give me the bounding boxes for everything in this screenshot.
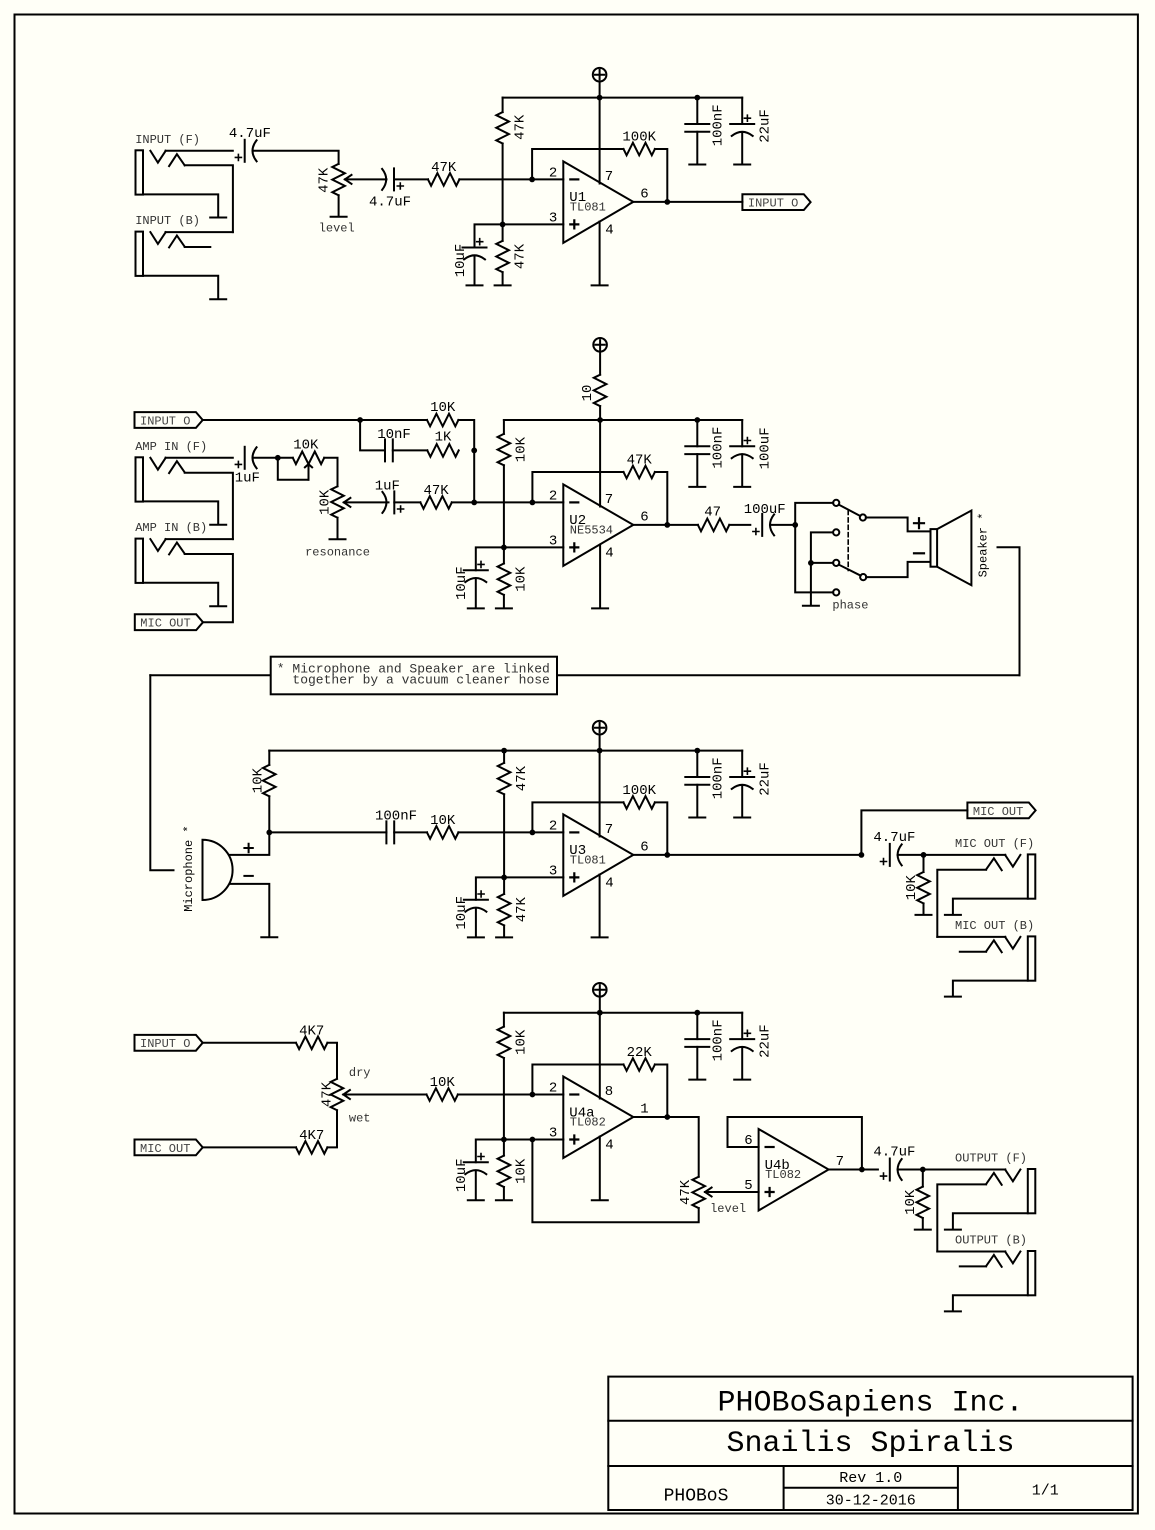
- switch SW1 pole M1: [860, 514, 866, 520]
- wire to R6: [360, 419, 427, 421]
- capacitor C5 22uF: [730, 115, 754, 136]
- wire U4b feedback loop: [728, 1117, 862, 1170]
- capacitor C7 1uF: [235, 447, 260, 487]
- wire U3 output run: [633, 854, 861, 856]
- svg-text:47K: 47K: [431, 160, 457, 176]
- wire J2 ring stub: [185, 246, 211, 248]
- ground C4: [689, 164, 705, 166]
- wire rail to C16: [696, 751, 698, 777]
- ground R30: [915, 1229, 931, 1231]
- capacitor C17 22uF: [730, 768, 754, 789]
- wire feedback U2: [532, 472, 623, 502]
- wire R22 to mix pot top: [327, 1043, 337, 1079]
- svg-text:INPUT (F): INPUT (F): [135, 133, 200, 147]
- wire level pot to vref: [532, 1140, 698, 1223]
- wire down to pin2 row: [473, 450, 475, 502]
- net tag INPUT O output: [742, 194, 810, 210]
- svg-text:10K: 10K: [430, 1075, 456, 1091]
- wire feedback U4a: [532, 1065, 623, 1095]
- wire R12 to pin3 node: [503, 465, 505, 547]
- wire R18 to pin3 node: [503, 794, 505, 877]
- svg-text:2: 2: [549, 1081, 557, 1097]
- svg-text:2: 2: [549, 165, 557, 181]
- capacitor C11 100nF: [685, 427, 726, 469]
- wire positive rail section2: [504, 419, 742, 421]
- resistor R14 47K feedback: [624, 453, 655, 479]
- wire J1 sleeve to ground: [143, 194, 218, 216]
- wire feedback U3: [532, 802, 623, 832]
- title block frame: [608, 1377, 1132, 1510]
- ground C18: [468, 1199, 484, 1201]
- power flag +V section3: [593, 721, 607, 751]
- net tag INPUT O input: [135, 412, 203, 428]
- jack J6 MIC OUT (B): [955, 919, 1035, 981]
- wire J6 tip: [937, 936, 1005, 938]
- wire R14 to output: [655, 472, 667, 525]
- junction U3 output: [664, 852, 670, 858]
- wire R25 to U4a pin2: [458, 1094, 563, 1096]
- ground C9: [468, 607, 484, 609]
- wiper of level pot: [345, 175, 387, 184]
- wire R27 to ground: [503, 1187, 505, 1199]
- capacitor C21 4.7uF: [873, 1145, 915, 1181]
- wire C16 to ground: [696, 785, 698, 817]
- wire R4 to ground: [502, 272, 504, 284]
- wire to J5 tip: [924, 854, 1006, 856]
- capacitor C15 4.7uF: [873, 830, 915, 866]
- jack J7 OUTPUT (F): [955, 1152, 1035, 1214]
- svg-text:10K: 10K: [293, 438, 319, 454]
- wire R11 to rail: [599, 406, 601, 420]
- svg-text:TL082: TL082: [570, 1116, 606, 1130]
- junction rail power section4: [597, 1010, 603, 1016]
- svg-text:4.7uF: 4.7uF: [229, 126, 271, 142]
- ground U3 pin4: [592, 936, 608, 938]
- svg-text:47K: 47K: [514, 897, 530, 923]
- label resonance: [305, 546, 370, 560]
- svg-text:100K: 100K: [622, 130, 656, 146]
- wire pin3 node to U2: [504, 546, 563, 548]
- wire pin4 to ground U2: [599, 545, 601, 608]
- title Snailis Spiralis: [726, 1427, 1014, 1461]
- svg-text:Rev 1.0: Rev 1.0: [839, 1470, 902, 1487]
- wire pin3 node to U1: [503, 223, 564, 225]
- wire to switch throw A: [795, 503, 833, 525]
- switch SW1 phase throw D: [833, 589, 839, 595]
- jack J2 INPUT (B): [135, 214, 200, 276]
- jack J3 AMP IN (F): [135, 440, 207, 502]
- junction pin3 bias node U2: [501, 545, 507, 551]
- svg-text:PHOBoSapiens Inc.: PHOBoSapiens Inc.: [717, 1387, 1023, 1421]
- svg-text:level: level: [710, 1202, 746, 1216]
- resistor R12 10K upper bias: [498, 434, 530, 465]
- wire level pot to ground: [338, 195, 340, 215]
- jack J8 OUTPUT (B): [955, 1234, 1035, 1296]
- net tag MIC OUT mixer: [135, 1140, 203, 1156]
- op-amp U4b TL082: [744, 1129, 844, 1211]
- label 100uF supply: [757, 427, 773, 469]
- svg-text:OUTPUT (F): OUTPUT (F): [955, 1152, 1027, 1166]
- wire J8 ring stub: [960, 1265, 986, 1267]
- svg-text:phase: phase: [832, 599, 868, 613]
- resistor R25 10K mix: [427, 1075, 458, 1101]
- wire J5 ring to J6 tip: [937, 870, 986, 937]
- wire pole M2 to speaker minus: [866, 562, 930, 577]
- wire J4 sleeve to ground: [143, 583, 218, 605]
- resistor R3 47K upper bias: [496, 112, 528, 143]
- note box microphone speaker linked: [271, 657, 557, 695]
- op-amp U3 TL081: [549, 814, 649, 896]
- wire J3 sleeve to ground: [143, 501, 218, 523]
- op-amp U4a TL082: [549, 1077, 649, 1159]
- svg-text:2: 2: [549, 818, 557, 834]
- label level U4b: [710, 1202, 746, 1216]
- wiper of 10K rheostat: [305, 464, 312, 480]
- junction rail power section1: [597, 95, 603, 101]
- svg-text:7: 7: [605, 492, 613, 508]
- power flag +V section4: [593, 983, 607, 1013]
- wire J8 tip: [937, 1251, 1005, 1253]
- junction pin2 feedback node: [529, 177, 535, 183]
- label Microphone: [182, 825, 196, 911]
- wire U4a output to level pot: [633, 1117, 698, 1177]
- wire to switch throw D: [795, 525, 833, 593]
- wire C1 to level pot: [253, 151, 339, 164]
- wire pin3 node to C9: [476, 547, 504, 570]
- capacitor C18 10uF: [454, 1154, 488, 1193]
- capacitor C16 100nF: [685, 757, 726, 799]
- net tag INPUT O mixer: [135, 1035, 203, 1051]
- wire C11 to ground: [696, 454, 698, 486]
- ground J2 sleeve: [210, 298, 226, 300]
- wire R30 to ground: [922, 1218, 924, 1229]
- label phase: [832, 599, 868, 613]
- svg-text:TL081: TL081: [570, 201, 606, 215]
- svg-text:6: 6: [640, 840, 648, 856]
- resistor R7 1K: [427, 429, 458, 456]
- ground R4: [495, 284, 511, 286]
- junction 1K node: [471, 448, 477, 454]
- resistor R23 4K7 wet: [296, 1128, 327, 1154]
- wire speaker to hose link: [998, 547, 1020, 675]
- svg-text:47K: 47K: [423, 483, 449, 499]
- svg-text:10K: 10K: [318, 489, 334, 515]
- power flag +V section2: [593, 338, 607, 375]
- capacitor C3 10uF: [453, 239, 487, 278]
- junction pin2 feedback node U4a: [530, 1092, 536, 1098]
- resistor R28 22K feedback: [624, 1045, 655, 1071]
- wire load node to R30: [922, 1170, 924, 1187]
- svg-text:AMP IN (B): AMP IN (B): [135, 521, 207, 535]
- svg-text:Snailis Spiralis: Snailis Spiralis: [726, 1427, 1014, 1461]
- svg-text:100nF: 100nF: [711, 757, 727, 799]
- svg-text:10nF: 10nF: [377, 427, 411, 443]
- wire pin8 supply U4a: [599, 1013, 601, 1099]
- svg-text:wet: wet: [349, 1111, 371, 1125]
- resistor R10 47K: [420, 483, 451, 509]
- wire rail to R12: [503, 420, 505, 434]
- wire rail to C20: [741, 1013, 743, 1039]
- capacitor C12 100uF: [730, 438, 754, 459]
- svg-text:10uF: 10uF: [453, 244, 469, 278]
- svg-text:AMP IN (F): AMP IN (F): [135, 440, 207, 454]
- wire rheostat loop: [278, 458, 309, 480]
- svg-text:10K: 10K: [514, 1158, 530, 1184]
- junction 47K node: [471, 500, 477, 506]
- ground R27: [496, 1199, 512, 1201]
- wire pin7 supply U1: [599, 98, 601, 184]
- svg-text:INPUT O: INPUT O: [140, 1037, 190, 1051]
- ground C19: [689, 1079, 705, 1081]
- wire throw B to ground node: [811, 532, 833, 563]
- ground resonance pot: [330, 538, 346, 540]
- op-amp U1 TL081: [549, 161, 649, 243]
- label 22uF: [757, 109, 773, 143]
- junction rail 47K section3: [501, 748, 507, 754]
- svg-text:5: 5: [744, 1178, 752, 1194]
- resistor R21 10K load: [904, 872, 930, 903]
- svg-text:6: 6: [640, 187, 648, 203]
- capacitor C14 10uF: [454, 891, 488, 930]
- label dry: [349, 1066, 371, 1080]
- junction rail power section2: [597, 417, 603, 423]
- ground C5: [734, 164, 750, 166]
- ground C3: [467, 284, 483, 286]
- junction U4a output: [664, 1114, 670, 1120]
- resistor R20 100K feedback: [622, 783, 656, 809]
- svg-text:INPUT O: INPUT O: [140, 414, 190, 428]
- ground J6 sleeve: [945, 996, 961, 998]
- ground R19: [496, 936, 512, 938]
- svg-text:100nF: 100nF: [711, 104, 727, 146]
- junction pin3 bias node: [500, 222, 506, 228]
- wire rail to C12: [741, 420, 743, 446]
- svg-text:1uF: 1uF: [235, 470, 260, 486]
- resistor R6 10K: [427, 400, 458, 426]
- ground U4a pin4: [592, 1199, 608, 1201]
- wire J5 sleeve to ground: [953, 899, 1028, 914]
- resistor R22 4K7 dry: [296, 1023, 327, 1049]
- svg-text:10uF: 10uF: [454, 566, 470, 600]
- svg-text:4K7: 4K7: [299, 1023, 324, 1039]
- resistor R16 10K mic bias: [251, 765, 276, 796]
- label 22uF section4: [757, 1024, 773, 1058]
- wire R3 to pin3 node: [502, 144, 504, 225]
- potentiometer R1 47K level body: [316, 164, 345, 195]
- wire switch ground stem: [810, 563, 812, 605]
- ground J5 sleeve: [945, 914, 961, 916]
- svg-text:10uF: 10uF: [454, 896, 470, 930]
- wire J7 sleeve to ground: [953, 1213, 1028, 1228]
- title date 30-12-2016: [826, 1493, 916, 1510]
- svg-text:4K7: 4K7: [299, 1128, 324, 1144]
- junction U1 output: [664, 199, 670, 205]
- wire C15 to load node: [898, 854, 924, 856]
- wire mic plus terminal: [230, 832, 270, 855]
- wire rail to R3: [502, 98, 504, 113]
- junction pin3 bias node U4a: [501, 1137, 507, 1143]
- junction pin2 feedback node U2: [530, 500, 536, 506]
- svg-text:10K: 10K: [514, 566, 530, 592]
- wire feedback U1: [532, 149, 623, 179]
- label 10 ohm: [580, 385, 596, 402]
- junction U4b output: [859, 1167, 865, 1173]
- wire C12 to ground: [741, 454, 743, 486]
- label wet: [349, 1111, 371, 1125]
- svg-text:10K: 10K: [430, 813, 456, 829]
- label Speaker: [976, 513, 990, 578]
- ground C16: [689, 817, 705, 819]
- svg-text:7: 7: [605, 169, 613, 185]
- capacitor C20 22uF: [730, 1030, 754, 1051]
- ground J7 sleeve: [945, 1229, 961, 1231]
- ground J1 sleeve: [210, 217, 226, 219]
- potentiometer R9 10K resonance: [318, 486, 344, 517]
- svg-text:10K: 10K: [251, 767, 267, 793]
- svg-text:Microphone *: Microphone *: [182, 825, 196, 911]
- svg-text:MIC OUT: MIC OUT: [140, 617, 190, 631]
- junction rail 100nF section4: [694, 1010, 700, 1016]
- wire throw C to ground node: [811, 562, 833, 564]
- wire pin3 node to C3: [475, 224, 503, 247]
- wire R8 to resonance pot: [324, 458, 337, 487]
- wire C20 to ground: [741, 1047, 743, 1079]
- wire mic minus terminal: [230, 884, 270, 936]
- wire positive rail section3: [269, 750, 742, 752]
- wire pin3 node to R13: [503, 547, 505, 563]
- title Rev 1.0: [839, 1470, 902, 1487]
- svg-text:4: 4: [605, 546, 613, 562]
- wire J3 tip to C7: [166, 457, 233, 459]
- junction pin2 feedback node U3: [530, 830, 536, 836]
- capacitor C2 4.7uF: [369, 168, 411, 210]
- wire R26 to pin3 node: [503, 1058, 505, 1140]
- speaker minus sign: [914, 552, 924, 554]
- svg-text:PHOBoS: PHOBoS: [664, 1487, 729, 1507]
- wire R23 to mix pot bottom: [327, 1110, 337, 1147]
- svg-text:22uF: 22uF: [757, 1024, 773, 1058]
- resistor R27 10K lower bias: [498, 1156, 530, 1187]
- wire J4 ring to MIC OUT: [185, 554, 233, 622]
- wire J2 tip: [166, 231, 233, 233]
- wire J1 tip to C1: [166, 150, 233, 152]
- junction pin3 bias node U3: [501, 875, 507, 881]
- ground C17: [734, 817, 750, 819]
- wiper of resonance pot: [344, 498, 389, 507]
- wire pin3 node to C14: [476, 877, 504, 899]
- ground phase switch: [803, 605, 819, 607]
- wire positive rail section1: [503, 97, 743, 99]
- resistor R8 10K rheostat: [293, 438, 324, 464]
- wire pin4 to ground U1: [599, 222, 601, 285]
- wire C5 to ground: [741, 132, 743, 164]
- wire R28 to output: [655, 1065, 667, 1118]
- capacitor C6 10nF: [377, 427, 411, 461]
- svg-text:3: 3: [549, 533, 557, 549]
- resistor R13 10K lower bias: [498, 564, 530, 595]
- svg-text:NE5534: NE5534: [570, 524, 613, 538]
- wire rail to C19: [696, 1013, 698, 1039]
- svg-text:MIC OUT (B): MIC OUT (B): [955, 919, 1034, 933]
- ground J3 sleeve: [210, 524, 226, 526]
- label 22uF section3: [757, 762, 773, 796]
- svg-text:10K: 10K: [904, 875, 920, 901]
- svg-text:dry: dry: [349, 1066, 371, 1080]
- wire R16 to mic node: [268, 796, 270, 832]
- wire U2 output to R15: [633, 524, 698, 526]
- junction U2 output: [664, 522, 670, 528]
- wire riser to MIC OUT tag: [861, 810, 967, 855]
- wire pin3 node to R27: [503, 1140, 505, 1156]
- ground C14: [468, 936, 484, 938]
- junction rail 100nF section2: [694, 417, 700, 423]
- wire R2 to U1 pin2: [459, 178, 563, 180]
- wire C18 to ground: [475, 1171, 477, 1200]
- junction rheostat loop: [275, 455, 281, 461]
- ground U2 pin4: [592, 607, 608, 609]
- wire pin3 node to U3: [504, 876, 563, 878]
- svg-text:4: 4: [605, 1138, 613, 1154]
- svg-text:2: 2: [549, 488, 557, 504]
- speaker LS1 driver: [931, 511, 972, 586]
- wire C10 to switch node: [770, 524, 795, 526]
- capacitor C10 100uF: [744, 502, 786, 536]
- switch SW1 pole M2: [860, 574, 866, 580]
- wire R13 to ground: [503, 595, 505, 608]
- wire R17 to U3 pin2: [458, 831, 563, 833]
- svg-text:7: 7: [605, 822, 613, 838]
- wire to J7 tip: [923, 1169, 1006, 1171]
- wire J1 ring to J2 tip: [185, 165, 233, 232]
- resistor R4 47K lower bias: [496, 241, 528, 272]
- svg-text:10K: 10K: [903, 1189, 919, 1215]
- wire rail to R18: [503, 751, 505, 763]
- jack J1 INPUT (F): [135, 133, 200, 195]
- svg-text:47K: 47K: [512, 114, 528, 140]
- svg-text:100nF: 100nF: [375, 809, 417, 825]
- junction mic plus node: [266, 830, 272, 836]
- wire J3 ring to J4 tip: [185, 473, 233, 539]
- svg-text:MIC OUT: MIC OUT: [140, 1142, 190, 1156]
- potentiometer R24 47K dry-wet body: [320, 1079, 344, 1110]
- junction output load: [920, 1167, 926, 1173]
- mic minus sign: [244, 875, 252, 877]
- wire C17 to ground: [741, 785, 743, 817]
- ground R21: [916, 914, 932, 916]
- switch SW1 phase throw B: [833, 529, 839, 535]
- svg-text:TL082: TL082: [765, 1168, 801, 1182]
- svg-text:1: 1: [640, 1102, 648, 1118]
- svg-text:7: 7: [836, 1154, 844, 1170]
- title company PHOBoSapiens Inc.: [717, 1387, 1023, 1421]
- wire C8 to R10: [394, 501, 420, 503]
- switch SW1 phase throw A: [833, 500, 839, 506]
- resistor R30 10K load: [903, 1187, 929, 1218]
- svg-text:TL081: TL081: [570, 854, 606, 868]
- svg-text:22uF: 22uF: [757, 762, 773, 796]
- svg-text:level: level: [319, 221, 355, 235]
- ground U1 pin4: [592, 284, 608, 286]
- wire C3 to ground: [474, 256, 476, 284]
- junction switch input: [792, 522, 798, 528]
- resistor R17 10K: [427, 813, 458, 839]
- switch arm bottom: [839, 565, 861, 576]
- wire rail to C4: [696, 98, 698, 124]
- wire C21 to load node: [898, 1169, 923, 1171]
- microphone MK1: [203, 840, 233, 900]
- wire R5 to output: [655, 149, 667, 202]
- svg-text:3: 3: [549, 210, 557, 226]
